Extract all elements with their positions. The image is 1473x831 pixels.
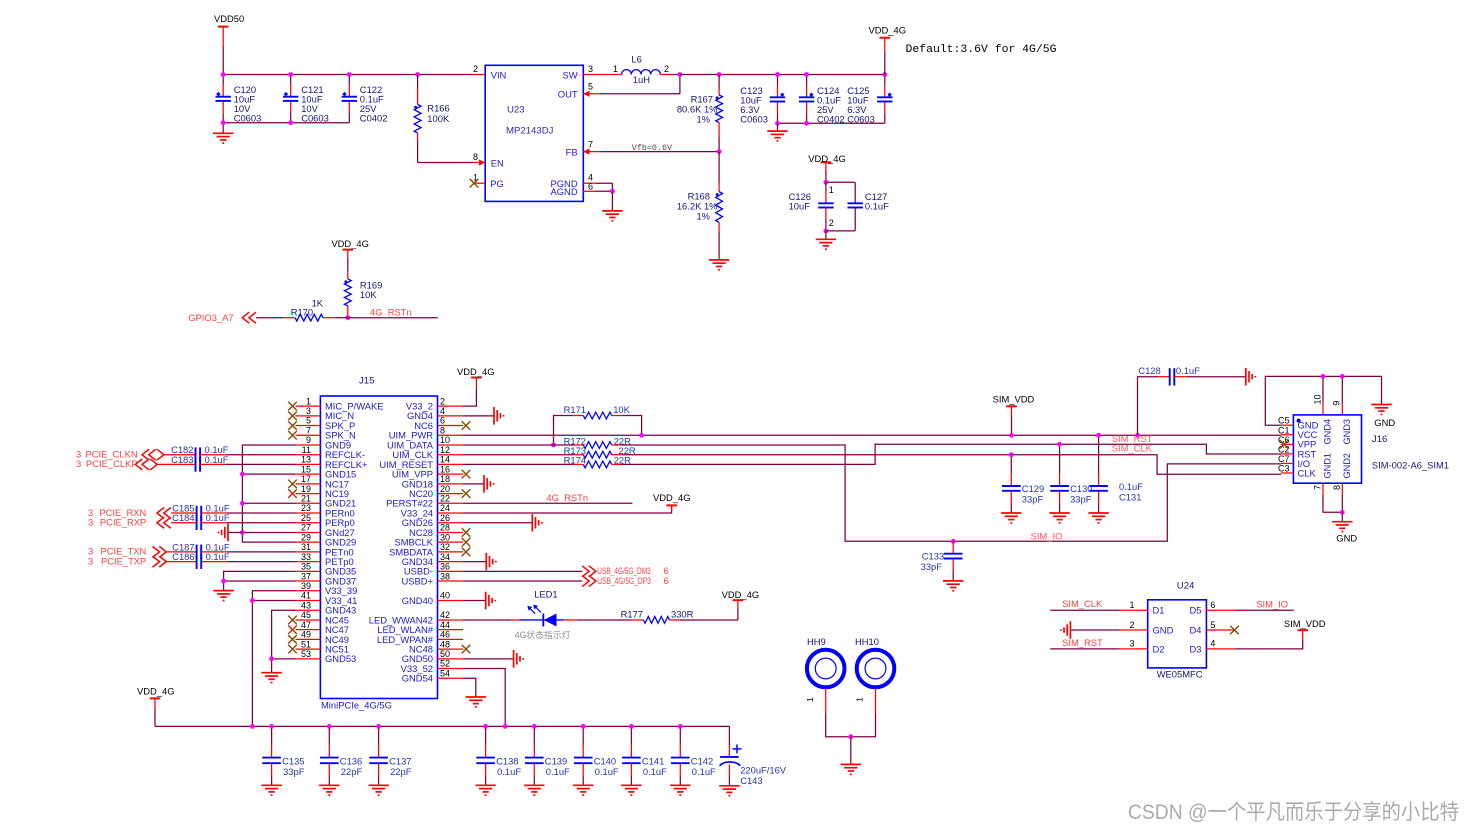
svg-text:LED1: LED1 xyxy=(534,589,557,600)
node C142 xyxy=(678,724,683,729)
pin 5 OUT xyxy=(583,93,600,95)
ground GND26 xyxy=(463,522,532,524)
svg-text:0.1uF: 0.1uF xyxy=(546,766,570,777)
wire OUT to L6 output node xyxy=(600,93,680,95)
ground xyxy=(222,123,224,134)
node C126 bottom xyxy=(824,229,829,234)
svg-text:0.1uF: 0.1uF xyxy=(692,766,716,777)
diode-array U24 WE05MFC xyxy=(1148,600,1207,668)
no-connect X xyxy=(288,616,297,625)
node pins 7/8 xyxy=(1340,510,1345,515)
svg-text:3: 3 xyxy=(588,64,593,74)
svg-text:1uH: 1uH xyxy=(633,74,650,85)
svg-text:C141: C141 xyxy=(642,755,664,766)
pin 3 SW xyxy=(583,74,621,76)
node C137 xyxy=(376,724,381,729)
svg-text:C135: C135 xyxy=(282,755,304,766)
svg-text:D4: D4 xyxy=(1190,624,1202,635)
svg-text:U24: U24 xyxy=(1177,580,1195,591)
ground GND40 xyxy=(463,600,486,602)
svg-text:6: 6 xyxy=(1210,600,1215,610)
no-connect X UIM_VPP xyxy=(462,470,471,479)
power symbol VDD50 xyxy=(218,26,229,28)
svg-text:19: 19 xyxy=(301,484,311,494)
pin 12 UIM_CLK xyxy=(438,454,464,456)
no-connect X SMBCLK xyxy=(462,538,471,547)
svg-text:10: 10 xyxy=(1312,394,1322,404)
resistor R166 xyxy=(417,75,419,90)
svg-text:33: 33 xyxy=(301,552,311,562)
svg-text:51: 51 xyxy=(301,639,311,649)
pin 22 PERST#22 xyxy=(438,502,464,504)
svg-text:35: 35 xyxy=(301,562,311,572)
svg-text:GND: GND xyxy=(1336,533,1357,544)
wire GND43/GND53 xyxy=(272,610,296,672)
ground C137 xyxy=(368,785,388,795)
svg-text:SIM_IO: SIM_IO xyxy=(1256,599,1288,610)
pin 28 NC28 xyxy=(438,531,464,533)
svg-text:20: 20 xyxy=(440,484,450,494)
ground C141 xyxy=(621,785,641,795)
svg-text:5: 5 xyxy=(1210,620,1215,630)
pin 8 GND2 xyxy=(1341,483,1343,495)
svg-text:C183: C183 xyxy=(171,454,193,465)
pin 37 GND37 xyxy=(296,580,321,582)
node SIM_VDD xyxy=(1009,433,1014,438)
resistor R177 330R xyxy=(631,619,643,621)
resistor R171 10K xyxy=(554,416,574,445)
svg-text:22pF: 22pF xyxy=(390,766,412,777)
svg-text:WE05MFC: WE05MFC xyxy=(1157,669,1203,680)
pin C1 VCC xyxy=(1281,434,1293,436)
pin 2 V33_2 xyxy=(438,405,464,407)
svg-text:GND1: GND1 xyxy=(1323,453,1333,479)
op-amp U23 MP2143DJ buck converter xyxy=(485,65,583,201)
svg-text:R174: R174 xyxy=(564,455,586,466)
capacitor C135 xyxy=(271,726,273,745)
wire SIM_IO from U24 xyxy=(1235,609,1294,611)
wire UIM_RESET / SIM_RST xyxy=(622,444,1281,464)
wire C120/C121/C122 ground rail xyxy=(223,122,349,124)
pin 15 GND15 xyxy=(296,473,321,475)
svg-text:29: 29 xyxy=(301,532,311,542)
node C125/VDD_4G xyxy=(882,72,887,77)
wire 4G_RSTn to PERST#22 xyxy=(463,502,632,504)
svg-text:49: 49 xyxy=(301,630,311,640)
svg-text:L6: L6 xyxy=(631,53,641,64)
svg-text:34: 34 xyxy=(440,552,450,562)
pin 3 D2 xyxy=(1120,648,1148,650)
pin 27 GNd27 xyxy=(296,531,321,533)
no-connect X xyxy=(288,431,297,440)
svg-text:C139: C139 xyxy=(545,755,567,766)
pin 26 GND26 xyxy=(438,522,464,524)
svg-text:C186: C186 xyxy=(172,551,194,562)
pin 36 USBD- xyxy=(438,570,464,572)
LED LED1 xyxy=(463,619,511,621)
resistor R174 22R xyxy=(463,463,574,465)
svg-text:C0402: C0402 xyxy=(360,113,388,124)
svg-text:14: 14 xyxy=(440,455,450,465)
svg-text:16: 16 xyxy=(440,464,450,474)
pin 33 PETp0 xyxy=(296,561,321,563)
svg-text:GND: GND xyxy=(1374,417,1395,428)
svg-text:45: 45 xyxy=(301,610,311,620)
node GND37 xyxy=(221,579,226,584)
svg-text:J16: J16 xyxy=(1372,434,1387,445)
pin 10 UIM_DATA xyxy=(438,444,464,446)
svg-text:15: 15 xyxy=(301,464,311,474)
svg-text:1: 1 xyxy=(829,185,834,195)
ground C133 xyxy=(943,581,963,591)
ground C128 right-pointing xyxy=(1246,368,1256,386)
ground GND43/53 xyxy=(261,673,281,683)
svg-text:GND3: GND3 xyxy=(1342,419,1352,445)
wire GPIO3_A7 to R170 xyxy=(256,317,283,319)
node PGND/AGND xyxy=(610,189,615,194)
pin 53 GND53 xyxy=(296,658,321,660)
pin 30 SMBCLK xyxy=(438,541,464,543)
svg-text:GND54: GND54 xyxy=(402,673,433,684)
svg-text:MP2143DJ: MP2143DJ xyxy=(506,125,554,136)
inductor L6 1uH xyxy=(622,70,661,75)
node C131 tap xyxy=(1096,433,1101,438)
svg-text:C0603: C0603 xyxy=(847,113,875,124)
svg-text:USBD+: USBD+ xyxy=(401,575,433,586)
svg-text:100K: 100K xyxy=(427,113,450,124)
svg-text:D5: D5 xyxy=(1190,605,1202,616)
power symbol VDD_4G above C126 xyxy=(821,161,832,163)
svg-text:AGND: AGND xyxy=(551,186,578,197)
ground U24 pin2 left-pointing xyxy=(1070,629,1119,631)
svg-text:VIN: VIN xyxy=(491,69,507,80)
pin 40 GND40 xyxy=(438,600,464,602)
ground C135 xyxy=(261,785,281,795)
power symbol VDD_4G at V33_24 xyxy=(463,512,672,514)
ground GND4 xyxy=(463,415,494,417)
no-connect X xyxy=(288,412,297,421)
svg-text:GND53: GND53 xyxy=(325,653,356,664)
pin 1 D1 xyxy=(1120,609,1148,611)
node C122 xyxy=(347,72,352,77)
svg-text:C136: C136 xyxy=(340,755,362,766)
svg-text:C128: C128 xyxy=(1138,365,1160,376)
svg-text:PCIE_CLKP: PCIE_CLKP xyxy=(86,458,138,469)
svg-text:9: 9 xyxy=(1332,401,1342,406)
svg-text:2: 2 xyxy=(473,64,478,74)
ground C131 xyxy=(1088,513,1108,523)
pin 10 GND4 xyxy=(1322,376,1324,403)
capacitor C187 xyxy=(167,551,197,553)
capacitor C182 xyxy=(164,454,196,456)
node HH9/HH10 xyxy=(848,734,853,739)
wire VDD_4G rail xyxy=(680,74,885,76)
svg-text:3: 3 xyxy=(88,555,93,566)
svg-text:VDD_4G: VDD_4G xyxy=(653,492,691,503)
svg-text:R171: R171 xyxy=(564,404,586,415)
node gnd rail C121 xyxy=(288,120,293,125)
node GNd27 xyxy=(240,530,245,535)
svg-text:R177: R177 xyxy=(621,609,643,620)
capacitor C185 xyxy=(171,512,197,514)
svg-text:0.1uF: 0.1uF xyxy=(595,766,619,777)
svg-text:10: 10 xyxy=(440,435,450,445)
node C138 xyxy=(483,724,488,729)
pin 6 D5 xyxy=(1206,609,1235,611)
svg-text:R166: R166 xyxy=(427,102,449,113)
svg-text:44: 44 xyxy=(440,620,450,630)
ground HH9/HH10 xyxy=(850,737,852,765)
svg-text:C143: C143 xyxy=(740,775,762,786)
svg-text:9: 9 xyxy=(306,435,311,445)
svg-text:12: 12 xyxy=(440,445,450,455)
node R166 xyxy=(415,72,420,77)
svg-text:C129: C129 xyxy=(1022,483,1044,494)
svg-text:6: 6 xyxy=(588,181,593,191)
wire UIM_CLK / SIM_CLK xyxy=(622,455,1281,475)
svg-text:SIM_RST: SIM_RST xyxy=(1062,637,1103,648)
pin 38 USBD+ xyxy=(438,580,464,582)
svg-text:0.1uF: 0.1uF xyxy=(205,454,229,465)
svg-text:3: 3 xyxy=(76,458,81,469)
pin 45 NC45 xyxy=(296,619,321,621)
svg-text:GND2: GND2 xyxy=(1342,453,1352,479)
svg-text:4: 4 xyxy=(440,406,445,416)
pin 34 GND34 xyxy=(438,561,464,563)
pin 5 D4 xyxy=(1206,629,1235,631)
wire VDD50 rail to U23 VIN xyxy=(223,74,473,76)
svg-text:33pF: 33pF xyxy=(921,561,943,572)
ground C138 xyxy=(475,785,495,795)
node V33_52 rail xyxy=(503,724,508,729)
pin 14 UIM_RESET xyxy=(438,463,464,465)
svg-text:17: 17 xyxy=(301,474,311,484)
node FB divider xyxy=(717,149,722,154)
svg-text:SIM_IO: SIM_IO xyxy=(1031,531,1063,542)
svg-text:37: 37 xyxy=(301,571,311,581)
svg-text:1: 1 xyxy=(1129,600,1134,610)
svg-text:C137: C137 xyxy=(389,755,411,766)
svg-text:31: 31 xyxy=(301,542,311,552)
no-connect X xyxy=(288,402,297,411)
svg-text:1: 1 xyxy=(306,396,311,406)
svg-text:SW: SW xyxy=(562,69,577,80)
pin 7 SPK_N xyxy=(296,434,321,436)
power symbol VDD_4G top xyxy=(880,37,891,39)
ground C130 xyxy=(1049,513,1069,523)
svg-text:SIM_RST: SIM_RST xyxy=(1112,433,1153,444)
svg-text:4G_RSTn: 4G_RSTn xyxy=(546,492,588,503)
no-connect X xyxy=(288,489,297,498)
svg-text:0.1uF: 0.1uF xyxy=(497,766,521,777)
node pin9 xyxy=(1340,374,1345,379)
node C121 xyxy=(288,72,293,77)
svg-text:39: 39 xyxy=(301,581,311,591)
connector J16 SIM-002-A6_SIM1 xyxy=(1293,415,1361,483)
svg-text:25: 25 xyxy=(301,513,311,523)
pin 8 EN xyxy=(473,162,485,164)
node C141 xyxy=(629,724,634,729)
pin 49 NC49 xyxy=(296,638,321,640)
svg-text:18: 18 xyxy=(440,474,450,484)
svg-text:1: 1 xyxy=(613,64,618,74)
pin 18 GND18 xyxy=(438,483,464,485)
no-connect X SMBDATA xyxy=(462,548,471,557)
pin C7 I/O xyxy=(1281,462,1293,464)
svg-text:U23: U23 xyxy=(507,104,525,115)
wire V33_39/V33_41 to VDD_4G rail xyxy=(252,591,295,727)
svg-text:7: 7 xyxy=(306,425,311,435)
svg-text:VDD50: VDD50 xyxy=(214,13,244,24)
svg-text:2: 2 xyxy=(829,218,834,228)
svg-text:2: 2 xyxy=(1129,620,1134,630)
node pin10 xyxy=(1321,374,1326,379)
svg-text:0.1uF: 0.1uF xyxy=(1176,365,1200,376)
svg-text:26: 26 xyxy=(440,513,450,523)
pin 23 PERn0 xyxy=(296,512,321,514)
pin 31 PETn0 xyxy=(296,551,321,553)
node C124 xyxy=(804,72,809,77)
svg-text:D3: D3 xyxy=(1190,643,1202,654)
pin 25 PERp0 xyxy=(296,522,321,524)
capacitor C121 xyxy=(290,85,292,97)
wire FB to divider xyxy=(600,151,719,153)
pin 5 SPK_P xyxy=(296,425,321,427)
svg-text:27: 27 xyxy=(301,523,311,533)
pin 1 MIC_P/WAKE xyxy=(296,405,321,407)
node C123 xyxy=(775,72,780,77)
svg-text:7: 7 xyxy=(1313,485,1323,490)
pin 1 PG no-connect xyxy=(474,182,485,184)
node gnd C123 xyxy=(775,121,780,126)
ground J16 top xyxy=(1371,405,1391,415)
pin 51 NC51 xyxy=(296,648,321,650)
wire R166 to EN xyxy=(418,162,473,164)
pin 4 D3 xyxy=(1206,648,1235,650)
svg-text:6: 6 xyxy=(664,575,669,586)
node C128 tap xyxy=(1135,433,1140,438)
svg-text:Vfb=0.6V: Vfb=0.6V xyxy=(632,143,672,153)
wire SIM_CLK to U24 xyxy=(1050,609,1120,611)
node C126 top xyxy=(824,180,829,185)
svg-text:8: 8 xyxy=(440,425,445,435)
pin 2 VIN xyxy=(473,74,485,76)
svg-text:10K: 10K xyxy=(613,404,630,415)
pin 43 GND43 xyxy=(296,609,321,611)
capacitor C139 xyxy=(533,726,535,745)
svg-text:PCIE_RXP: PCIE_RXP xyxy=(100,517,146,528)
pin 19 NC19 xyxy=(296,493,321,495)
node GND21 xyxy=(240,501,245,506)
pin 6 NC6 xyxy=(438,425,464,427)
svg-text:MiniPCIe_4G/5G: MiniPCIe_4G/5G xyxy=(321,700,392,711)
node C133 tap xyxy=(951,539,956,544)
node GND53 xyxy=(269,656,274,661)
pin 9 GND3 xyxy=(1341,376,1343,403)
pin C5 GND xyxy=(1281,424,1293,426)
pin 7 GND1 xyxy=(1322,483,1324,495)
node GND15 xyxy=(240,472,245,477)
pin 21 GND21 xyxy=(296,502,321,504)
wire C123-C125 ground rail xyxy=(778,122,885,124)
pin 42 LED_WWAN42 xyxy=(438,619,464,621)
node 4G_RSTn xyxy=(345,315,350,320)
pin 9 GND9 xyxy=(296,444,321,446)
wire J16 GND loop xyxy=(1265,376,1381,425)
power symbol SIM_VDD xyxy=(1006,405,1017,407)
wire GND54 xyxy=(463,678,476,697)
ground C143 xyxy=(719,786,739,796)
pin 2 GND xyxy=(1120,629,1148,631)
svg-text:5: 5 xyxy=(588,82,593,92)
pin 39 V33_39 xyxy=(296,590,321,592)
ground C123 rail xyxy=(777,123,779,131)
wire SIM_RST to U24 xyxy=(1050,648,1120,650)
svg-text:24: 24 xyxy=(440,503,450,513)
svg-text:C140: C140 xyxy=(594,755,616,766)
capacitor C130 xyxy=(1059,444,1061,474)
svg-text:330R: 330R xyxy=(671,609,694,620)
pin 44 LED_WLAN# xyxy=(438,629,464,631)
pin 50 GND50 xyxy=(438,658,464,660)
ground C139 xyxy=(524,785,544,795)
svg-text:22pF: 22pF xyxy=(341,766,363,777)
svg-text:HH10: HH10 xyxy=(855,636,879,647)
svg-text:38: 38 xyxy=(440,571,450,581)
pin 4 PGND xyxy=(583,182,595,184)
svg-text:4G状态指示灯: 4G状态指示灯 xyxy=(515,629,571,640)
svg-text:GND40: GND40 xyxy=(402,595,433,606)
no-connect X xyxy=(288,421,297,430)
svg-text:C0603: C0603 xyxy=(301,113,329,124)
svg-text:HH9: HH9 xyxy=(807,636,826,647)
svg-text:4G_RSTn: 4G_RSTn xyxy=(370,307,412,318)
svg-text:0.1uF: 0.1uF xyxy=(865,201,889,212)
svg-text:13: 13 xyxy=(301,455,311,465)
node C135 xyxy=(269,724,274,729)
svg-text:GND4: GND4 xyxy=(1323,419,1333,445)
power symbol VDD_4G at R177 xyxy=(737,608,739,620)
svg-text:8: 8 xyxy=(1332,485,1342,490)
svg-text:C133: C133 xyxy=(922,551,944,562)
svg-text:1%: 1% xyxy=(696,114,710,125)
svg-text:41: 41 xyxy=(301,591,311,601)
wire VDD_4G bottom rail xyxy=(155,725,729,727)
node V33_41 xyxy=(250,598,255,603)
node C140 xyxy=(581,724,586,729)
svg-text:C0603: C0603 xyxy=(234,113,262,124)
svg-text:CLK: CLK xyxy=(1298,467,1317,478)
resistor R167 xyxy=(718,75,720,89)
svg-text:C0402: C0402 xyxy=(817,113,845,124)
svg-text:SIM_VDD: SIM_VDD xyxy=(1284,618,1326,629)
svg-text:42: 42 xyxy=(440,610,450,620)
node C129 tap xyxy=(1009,452,1014,457)
pin 24 V33_24 xyxy=(438,512,464,514)
svg-text:C184: C184 xyxy=(172,512,194,523)
svg-text:32: 32 xyxy=(440,542,450,552)
mounting hole HH10 xyxy=(857,650,895,688)
ground C126 xyxy=(825,231,827,239)
ground C136 xyxy=(319,785,339,795)
svg-text:40: 40 xyxy=(440,591,450,601)
svg-text:OUT: OUT xyxy=(558,89,578,100)
svg-text:C5: C5 xyxy=(1278,416,1290,426)
svg-text:C142: C142 xyxy=(691,755,713,766)
no-connect X xyxy=(288,480,297,489)
svg-text:C1: C1 xyxy=(1278,425,1290,435)
no-connect X VPP xyxy=(1280,440,1289,449)
